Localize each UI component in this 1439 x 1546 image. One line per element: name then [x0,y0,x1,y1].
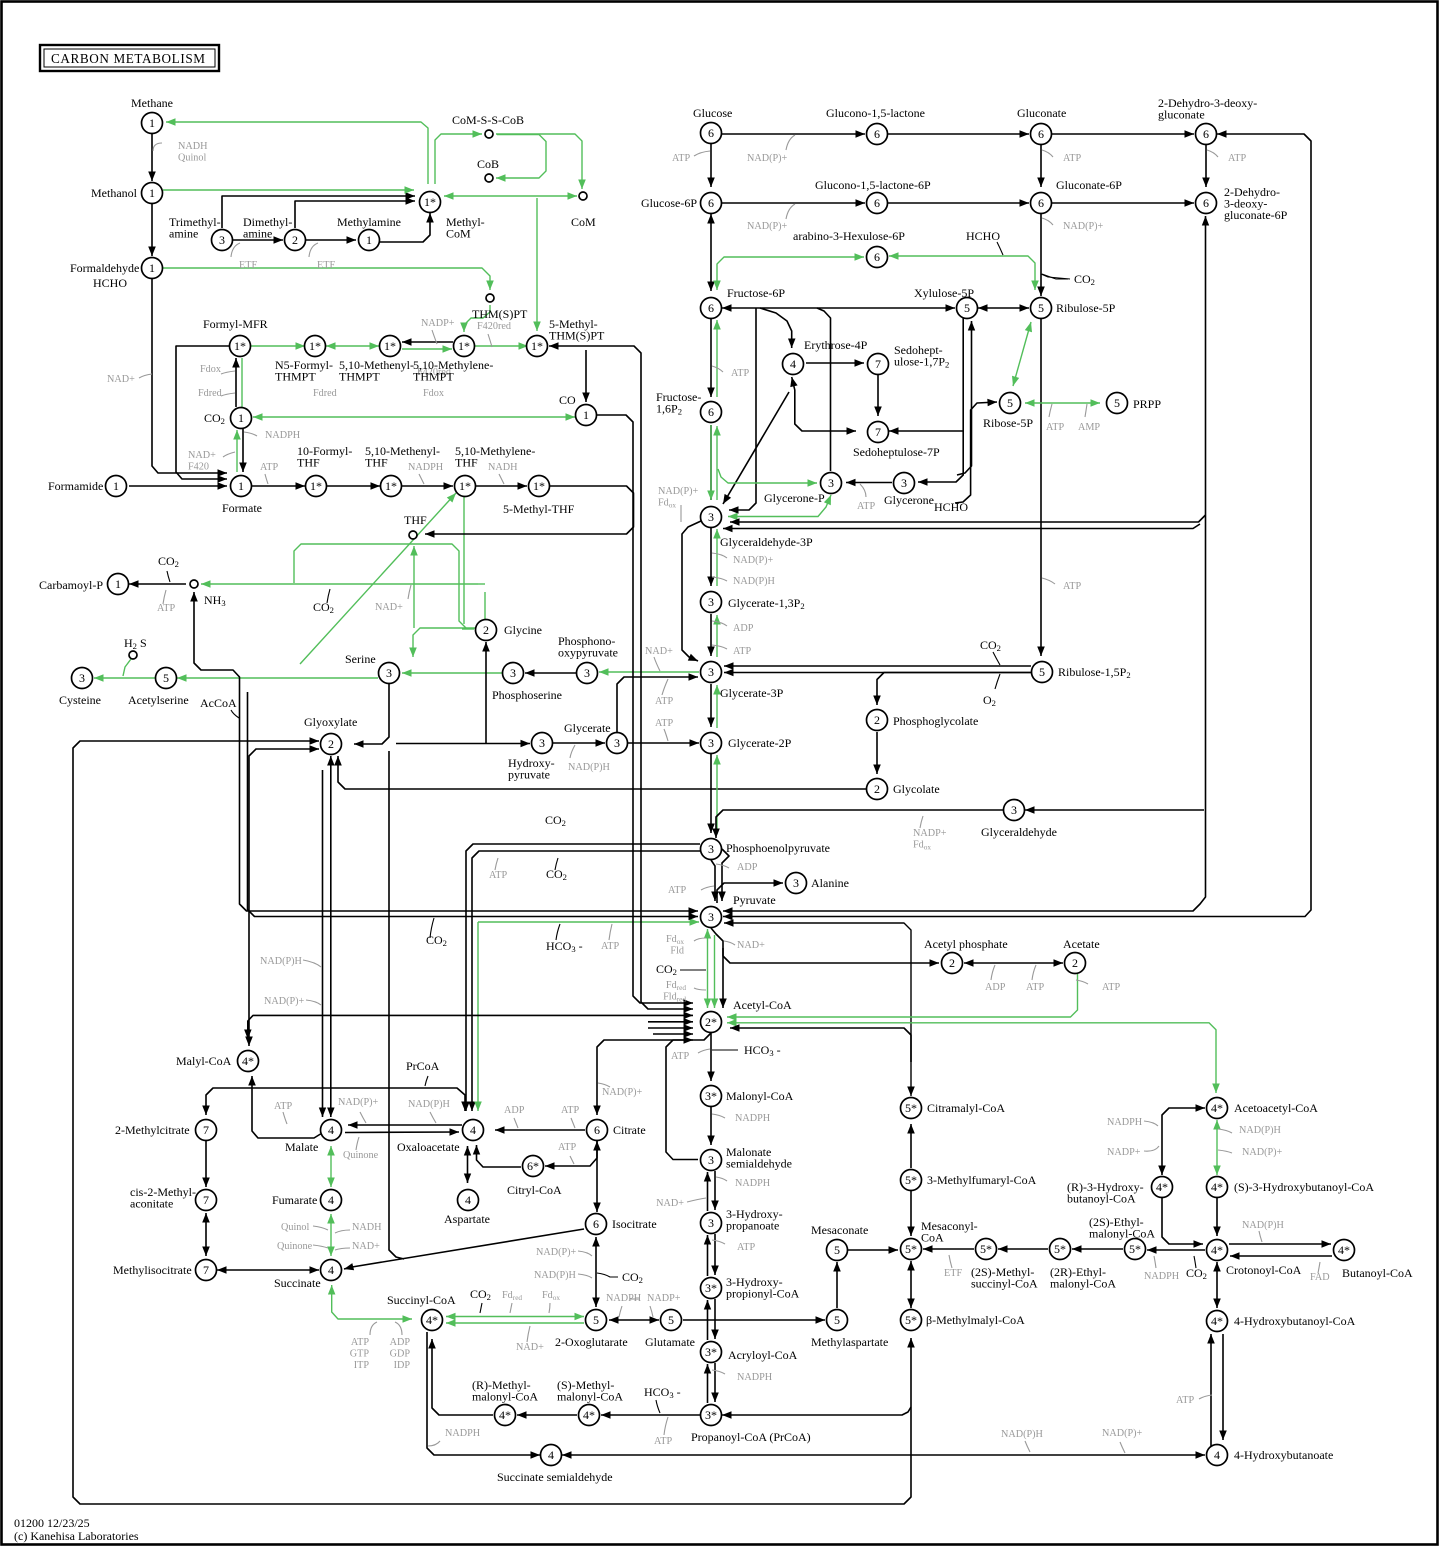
svg-text:7: 7 [203,1193,209,1207]
hook PrCoAhook [425,1076,428,1086]
hook NADPHbmm [1025,1441,1030,1452]
label ATPcitr [561,1105,579,1116]
label NADP+s3hb [1242,1147,1283,1158]
label NADH2 [488,462,518,473]
hook NADPH2thf [419,474,424,484]
node Glyceraldehyde-3P [701,507,722,528]
svg-text:Isocitrate: Isocitrate [612,1217,657,1231]
label ADPg13 [733,623,754,634]
wire 3mf-mesaconyl [907,1191,915,1236]
label NADH [178,141,208,164]
svg-text:Glycerate-1,3P2: Glycerate-1,3P2 [728,596,805,611]
wire 2rem-2sms [998,1245,1048,1253]
label bMM [926,1313,1025,1327]
svg-text:NADPH: NADPH [1144,1271,1180,1282]
svg-text:4: 4 [1214,1448,1220,1462]
label Glycerone-P [764,491,825,505]
svg-text:6: 6 [1203,127,1209,141]
svg-text:1*: 1* [459,479,471,493]
hook ATPac [1032,965,1036,980]
label NADP-2 [747,221,788,232]
label Dimethylamine [243,215,292,241]
label ETF3 [944,1268,962,1279]
svg-text:NAD(P)H: NAD(P)H [1239,1125,1282,1136]
label Fructose-6P [727,286,785,300]
label Methanol [91,186,138,200]
svg-text:1: 1 [149,261,155,275]
label Quinone-mal [343,1150,379,1161]
hook NADPHmalonyl [712,1114,725,1118]
hook ATPrub [1042,578,1055,584]
svg-text:4*: 4* [583,1408,595,1422]
svg-text:NAD(P)+: NAD(P)+ [747,153,788,164]
node Glycine [476,620,497,641]
wire methylCoM-methane green [166,118,428,184]
node R-3-Hydroxybutanoyl-CoA [1152,1177,1173,1198]
wire glycine-left green [462,628,474,630]
wire glycerate-g2p [628,739,699,747]
node Propanoyl-CoA [701,1405,722,1426]
wire xyl5p-ru5p [978,304,1029,312]
svg-text:NAD(P)+: NAD(P)+ [536,1247,577,1258]
wire loop-TH green [478,583,485,585]
label Glutamate [645,1335,695,1349]
svg-text:4*: 4* [1156,1180,1168,1194]
svg-text:4-Hydroxybutanoyl-CoA: 4-Hydroxybutanoyl-CoA [1234,1314,1356,1328]
wire CoM-methylCoM green [444,192,577,200]
svg-text:ATP: ATP [1063,153,1081,164]
svg-text:2: 2 [328,737,334,751]
svg-text:ADP: ADP [985,982,1006,993]
svg-text:NAD(P)+: NAD(P)+ [1063,221,1104,232]
wire serinecol-pyruvate [248,692,699,920]
wire accoa-right-black [730,1024,911,1062]
node Erythrose-4P [783,354,804,375]
label ADPpep [737,862,758,873]
node Glycerate [607,733,628,754]
wire pyr-oaa [468,851,705,1111]
node Acryloyl-CoA [701,1342,722,1363]
svg-text:Xylulose-5P: Xylulose-5P [914,286,974,300]
node Ribulose-5P [1031,298,1052,319]
node Acetate [1065,953,1086,974]
label CrotonoylCoA [1226,1263,1302,1277]
svg-text:Fdox: Fdox [200,364,221,375]
svg-text:6: 6 [874,250,880,264]
node Dimethylamine [285,230,306,251]
label Succinate [274,1276,321,1290]
svg-text:Glycerate-2P: Glycerate-2P [728,736,792,750]
node Citryl-CoA [523,1156,544,1177]
hook CO2pyr [430,918,434,938]
svg-text:ADP: ADP [390,1337,411,1348]
label ATPglycerone [857,501,875,512]
wire poxypyruvate-phosphoserine [525,669,576,677]
label Quinone2 [277,1241,313,1252]
node N5-Formyl-THMPT [305,336,326,357]
node Succinyl-CoA [422,1310,443,1331]
svg-text:Succinate semialdehyde: Succinate semialdehyde [497,1470,613,1484]
label Glycolate [893,782,940,796]
hook NADl [139,374,152,378]
svg-text:6: 6 [708,126,714,140]
hook ATPglucose [694,151,710,156]
svg-text:NAD(P)+: NAD(P)+ [602,1087,643,1098]
svg-text:(S)-3-Hydroxybutanoyl-CoA: (S)-3-Hydroxybutanoyl-CoA [1234,1180,1374,1194]
label Fdox1 [200,364,221,375]
svg-text:3-Methylfumaryl-CoA: 3-Methylfumaryl-CoA [927,1173,1037,1187]
svg-text:ATP: ATP [601,941,619,952]
wire croto-2sem [1147,1246,1205,1254]
label ADPac [985,982,1006,993]
svg-text:1*: 1* [309,339,321,353]
hook ATPcitr [571,1118,575,1128]
wire lactone6p-gluconate6p [888,199,1029,207]
label Aspartate [444,1212,490,1226]
label Fdox2 [423,388,444,399]
svg-text:NAD+: NAD+ [107,374,135,385]
label Sedoheptulose-7P [853,445,940,459]
label ATPaccoa [671,1051,689,1062]
svg-text:5*: 5* [905,1242,917,1256]
hook ATPprcoa [664,1417,668,1435]
hook NADPHco2 [244,432,257,436]
svg-text:Propanoyl-CoA (PrCoA): Propanoyl-CoA (PrCoA) [691,1430,811,1444]
wire citrate-citryl [545,1141,597,1170]
svg-text:ATP: ATP [731,368,749,379]
hook ATPgluconate [1042,150,1053,157]
svg-text:Fdox: Fdox [423,388,444,399]
node 510-Methylene-THF [455,476,476,497]
wire accoa-stub3 [653,1030,693,1038]
svg-text:2: 2 [1072,956,1078,970]
hook ATPf6p [712,366,723,372]
svg-text:ETF: ETF [239,260,257,271]
label FdoxFld [666,934,684,957]
wire 2d3dg-pyruvate-loop [723,130,1311,920]
label Mesaconate [811,1223,868,1237]
svg-text:1*: 1* [424,195,436,209]
label NH3 [204,593,226,608]
svg-text:NADPH: NADPH [606,1293,642,1304]
wire trimethylamine-up-methylCoM [222,192,415,228]
label ATP2d3dg [1228,153,1246,164]
hook NADPHhydroxypyr [570,745,575,758]
svg-text:IDP: IDP [394,1360,411,1371]
label NADPH1 [265,430,301,441]
svg-text:NAD(P)H: NAD(P)H [408,1099,451,1110]
hook NADog [527,1326,530,1342]
node Glucose-6P [701,193,722,214]
svg-text:5*: 5* [905,1313,917,1327]
wire glyoxylate-malate [327,756,335,1117]
label Malyl-CoA [176,1054,232,1068]
svg-text:THM(S)PT: THM(S)PT [472,307,528,321]
svg-text:Pyruvate: Pyruvate [733,893,776,907]
svg-text:NADP+: NADP+ [647,1293,681,1304]
label Serine [345,652,376,666]
label NADHfum [352,1222,382,1233]
label ATPmalate [274,1101,292,1112]
svg-text:6: 6 [594,1123,600,1137]
label Glucose-6P [641,196,697,210]
svg-text:PRPP: PRPP [1133,397,1161,411]
wire hcho-down-formate [152,279,227,477]
svg-text:NAD(P)H: NAD(P)H [260,956,303,967]
label Oxaloacetate [397,1140,460,1154]
hook NADPHacr [712,1370,725,1374]
svg-text:ATP: ATP [1026,982,1044,993]
wire xyl-r5p-vert [957,321,975,475]
label AMP [1078,422,1100,433]
wire 3hpcoa-acryloyl L [704,1300,711,1340]
svg-text:Phosphoserine: Phosphoserine [492,688,562,702]
label HCHO2 [966,229,1000,243]
label NAD+og [516,1342,544,1353]
svg-text:ATP: ATP [857,501,875,512]
node Ribulose-15P2 [1032,662,1053,683]
wire malsa-3hp L [704,1172,711,1211]
node Trimethylamine [212,230,233,251]
hook Fdoxog [549,1303,550,1313]
svg-text:NADPH: NADPH [1107,1117,1143,1128]
label Malate [285,1140,318,1154]
wire mesaconate-mesaconyl [848,1246,898,1254]
label ATPformate [260,462,278,473]
svg-text:Glucose: Glucose [693,106,732,120]
wire citrate-isocitrate [593,1141,601,1212]
svg-text:5*: 5* [1054,1242,1066,1256]
label Hydroxypyruvate [508,756,555,782]
label NADgluc6p [1063,221,1104,232]
wire co2-formate black [239,429,247,472]
svg-text:3: 3 [793,876,799,890]
wire malsa-3hp R [711,1171,719,1210]
wire r3hb-croto [1162,1198,1203,1248]
svg-text:malonyl-CoA: malonyl-CoA [1050,1277,1116,1291]
svg-text:2-Methylcitrate: 2-Methylcitrate [115,1123,190,1137]
node Succinate [321,1260,342,1281]
wire succinyl-succinate green [328,1285,412,1323]
svg-text:5: 5 [1039,665,1045,679]
node Mesaconyl-CoA [901,1239,922,1260]
svg-text:NAD(P)H: NAD(P)H [1242,1220,1285,1231]
label HCHO3 [934,500,968,514]
wire serine-column-down [389,751,404,1259]
wire glucose-g6p [707,144,715,187]
svg-text:2*: 2* [705,1015,717,1029]
label SMM [557,1378,623,1404]
label HCO3prcoa [644,1385,681,1400]
wire formylTHF-methenylTHF [327,482,380,490]
svg-text:β-Methylmalyl-CoA: β-Methylmalyl-CoA [926,1313,1025,1327]
wire serine-acetylserine green [177,674,378,682]
node Methanol [142,183,163,204]
svg-text:NAD(P)H: NAD(P)H [534,1270,577,1281]
node S-Methylmalonyl-CoA [579,1405,600,1426]
svg-text:2: 2 [292,233,298,247]
wire serine-hydroxypyruvate [396,740,530,747]
hook NADmalsa [687,1198,706,1202]
label ATPacetate [1102,982,1120,993]
svg-text:NADPH: NADPH [737,1372,773,1383]
label ATPpep1 [489,870,507,881]
wire acetylserine-cysteine green [94,674,155,682]
wire pyruvate-acetylphosphate [723,948,939,967]
label Formaldehyde [70,261,139,275]
svg-text:AMP: AMP [1078,422,1100,433]
svg-text:ATP: ATP [668,885,686,896]
svg-text:6: 6 [1203,196,1209,210]
svg-text:4: 4 [790,357,796,371]
svg-text:NADP+: NADP+ [913,828,947,839]
svg-text:ATP: ATP [655,696,673,707]
label Formate [222,501,262,515]
node THF [409,531,417,539]
node Glucono-15-lactone [867,124,888,145]
svg-text:THMPT: THMPT [339,370,380,384]
svg-text:Glucono-1,5-lactone: Glucono-1,5-lactone [826,106,925,120]
node Formamide [106,476,127,497]
svg-text:NADPH: NADPH [265,430,301,441]
svg-text:malonyl-CoA: malonyl-CoA [1089,1227,1155,1241]
label Cysteine [59,693,101,707]
wire 3hp-3hpcoa R [711,1234,719,1275]
hook NADPHmalsa [716,1177,727,1181]
hook Quinone2fum [313,1245,328,1248]
label NADPHcroto [1144,1271,1180,1282]
node 510-Methylene-THMPT [454,336,475,357]
svg-text:3: 3 [708,665,714,679]
svg-text:3: 3 [584,666,590,680]
hook NADF420 [223,452,235,457]
svg-text:ATP: ATP [671,1051,689,1062]
svg-text:CoB: CoB [477,157,499,171]
label 5MethylTHMSPT [549,317,605,343]
node Methane [142,113,163,134]
svg-text:ATP: ATP [489,870,507,881]
label 510MethyleneTHF [455,444,535,470]
footer [14,1516,139,1543]
label O2rub [983,693,996,708]
label Malonatesemialdehyde [726,1145,792,1171]
svg-text:Glucono-1,5-lactone-6P: Glucono-1,5-lactone-6P [815,178,931,192]
node Formyl-MFR [230,336,251,357]
svg-text:Quinol: Quinol [281,1222,309,1233]
node 510-Methenyl-THMPT [380,336,401,357]
hook O2rub [995,674,1000,689]
wire xyl-glycerone [918,312,963,486]
svg-text:3: 3 [79,671,85,685]
wire methylene-methylTHMSPT green [475,342,528,350]
wire malonyl-malsa [707,1107,715,1145]
node 2S-Methylsuccinyl-CoA [976,1239,997,1260]
label AcetoacetylCoA [1234,1101,1318,1115]
svg-text:1: 1 [366,233,372,247]
svg-text:ulose-1,7P2: ulose-1,7P2 [894,355,949,370]
node Phosphoglycolate [867,710,888,731]
hook CO2hexulose [1042,274,1068,279]
node Isocitrate [586,1214,607,1235]
node Oxaloacetate [463,1120,484,1141]
label 3HPCoA [726,1275,800,1301]
wire gapn-arc [682,521,701,661]
wire 2og-succinylcoa green1 [446,1313,584,1320]
node 3-Hydroxypropanoate [701,1213,722,1234]
label Glycine [504,623,542,637]
wire methylTHF-loop-THF [425,486,634,538]
label NADP-1 [747,153,788,164]
svg-text:ATP: ATP [1046,422,1064,433]
hook Fdox1 [221,371,235,374]
hook Quinolfum [313,1226,328,1230]
label NADP+malate [338,1097,379,1108]
label Fructose16P2 [656,390,701,417]
node cis-2-Methyl-aconitate [196,1190,217,1211]
svg-text:6: 6 [593,1217,599,1231]
svg-text:THF: THF [404,513,427,527]
label Citryl-CoA [507,1183,562,1197]
wire accoa-citrate [593,1033,711,1115]
node Malonyl-CoA [701,1086,722,1107]
svg-text:1*: 1* [385,479,397,493]
label Gluconate [1017,106,1066,120]
svg-text:ATP: ATP [1176,1395,1194,1406]
label CoM-S-S-CoB [452,113,524,127]
label Glycerate-2P [728,736,792,750]
wire malate-oaa1 [348,1121,462,1129]
label PropanoylCoA [691,1430,811,1444]
wire accoa-stub2 [648,1024,693,1032]
wire f6p-hexulose green [713,253,864,290]
hook F420red1 [488,334,492,347]
hook NADH [153,143,162,151]
svg-text:3: 3 [828,476,834,490]
svg-text:ADP: ADP [737,862,758,873]
wire ed-2d3dg6p-pyruvate [723,216,1209,915]
wire glyox-malate2 [319,770,326,1117]
label PRPP [1133,397,1161,411]
wire malyl-malate [248,1076,320,1138]
wire glycineloop-NH3 green [201,580,478,588]
svg-text:NAD+: NAD+ [516,1342,544,1353]
wire dimethyl-methylamine [305,236,356,244]
label NADPH-og [606,1293,642,1304]
label 3HP [726,1207,783,1233]
wire gap-g13p2 [707,528,715,586]
wire f6p-xyl5p [722,304,955,312]
svg-text:NAD(P)H: NAD(P)H [568,762,611,773]
svg-text:3: 3 [708,842,714,856]
label F420red2 [417,367,451,378]
hook NADPHcroto2 [1259,1231,1262,1242]
label NADP+iso [536,1247,577,1258]
hook HCO3accoahook [712,1049,738,1051]
wire gluconate6p-2d3dg6p [1052,199,1194,207]
wire rmm-succinyl [428,1339,493,1415]
wire 3hp-3hpcoa L [704,1235,711,1276]
svg-text:1: 1 [115,577,121,591]
label Fdred1 [198,388,222,399]
wire phosphoserine-serine green [402,669,502,677]
label 510MethenylTHMPT [339,358,414,384]
svg-text:NADPH: NADPH [408,462,444,473]
label Succinyl-CoA [387,1293,456,1307]
svg-text:ATP: ATP [655,718,673,729]
svg-text:Ribulose-1,5P2: Ribulose-1,5P2 [1058,665,1131,680]
label SSA [497,1470,613,1484]
label ATPrub [1063,581,1081,592]
